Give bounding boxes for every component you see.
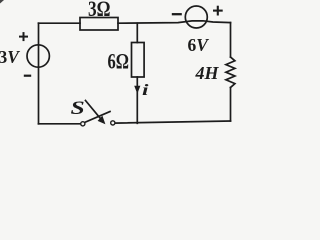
corner scan speck — [0, 0, 4, 4]
resistor 6ohm (box) — [132, 43, 145, 78]
svg-text:3Ω: 3Ω — [88, 0, 111, 21]
wire top-right horizontal (3ohm to top-right corner, through 6V) — [118, 21, 231, 23]
resistor 3ohm (box) — [80, 18, 118, 31]
wire top-left horizontal (node from 3V+ to 3ohm) — [39, 22, 81, 24]
wire bottom-left horizontal (switch left terminal to 3V branch) — [39, 123, 81, 125]
minus sign of 3V — [24, 75, 31, 77]
switch left terminal — [81, 122, 85, 126]
wire middle branch lower (6ohm down to bottom node) — [136, 77, 138, 123]
source 6V (circle) — [185, 6, 207, 28]
switch right terminal — [111, 121, 115, 125]
minus sign of 6V — [172, 13, 182, 15]
source 3V (circle) — [27, 45, 49, 67]
wire left vertical through 3V source — [38, 23, 40, 124]
plus sign of 6V — [213, 6, 223, 16]
switch actuation arrow shaft — [86, 101, 102, 120]
wire bottom-right horizontal (corner to switch right terminal) — [115, 121, 231, 123]
wire right vertical upper (corner to inductor) — [230, 23, 232, 57]
inductor 4H (zigzag) — [226, 57, 235, 88]
switch arrow head — [98, 116, 106, 125]
plus sign of 3V — [19, 32, 28, 41]
wire middle branch upper (top node down to 6ohm) — [136, 23, 138, 42]
current arrow head (i) — [134, 86, 140, 94]
svg-text:6V: 6V — [188, 35, 210, 55]
svg-text:S: S — [71, 97, 85, 118]
wire right vertical lower (inductor to bottom corner) — [230, 88, 232, 122]
svg-text:4H: 4H — [195, 63, 220, 83]
svg-text:3V: 3V — [0, 47, 20, 67]
svg-text:i: i — [142, 81, 149, 98]
switch blade — [85, 112, 110, 123]
svg-text:6Ω: 6Ω — [108, 49, 130, 74]
